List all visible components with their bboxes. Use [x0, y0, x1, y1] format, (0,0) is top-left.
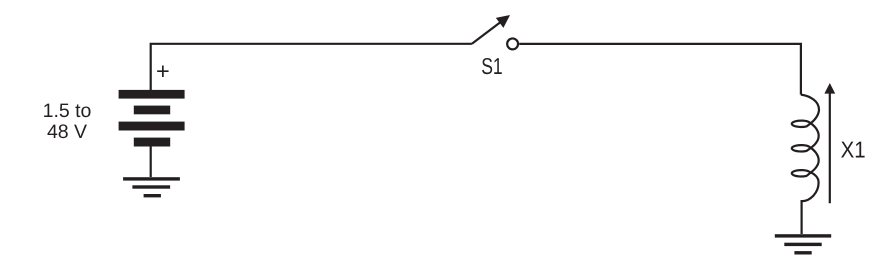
wire: battery negative to ground: [150, 147, 152, 178]
label X1: [841, 137, 866, 163]
battery: plate 1 (long, +): [119, 90, 185, 99]
ground (below inductor X1): [775, 234, 831, 254]
wire: switch contact to inductor top (top right run): [519, 44, 801, 95]
svg-text:+: +: [156, 58, 170, 84]
ground (below battery): [123, 177, 180, 197]
inductor X1 coil: [792, 95, 819, 202]
wire: battery positive to switch blade pivot (top left run): [151, 44, 472, 90]
svg-text:X1: X1: [841, 137, 866, 163]
svg-text:S1: S1: [481, 53, 503, 79]
battery: plate 4 (short): [134, 138, 170, 147]
switch S1 blade with arrowhead: [472, 16, 509, 44]
battery: plate 3 (long): [119, 122, 185, 131]
switch S1 stationary contact (circle): [507, 38, 518, 49]
svg-text:48 V: 48 V: [47, 121, 87, 143]
svg-text:1.5 to: 1.5 to: [43, 100, 92, 122]
wire: inductor bottom to ground: [800, 200, 802, 234]
label + (battery positive): [156, 58, 170, 84]
label S1: [481, 53, 503, 79]
battery: plate 2 (short): [134, 106, 170, 115]
label battery value 1.5 to 48 V: [43, 100, 92, 143]
arrow: radiation/current indicator for X1: [824, 83, 835, 203]
